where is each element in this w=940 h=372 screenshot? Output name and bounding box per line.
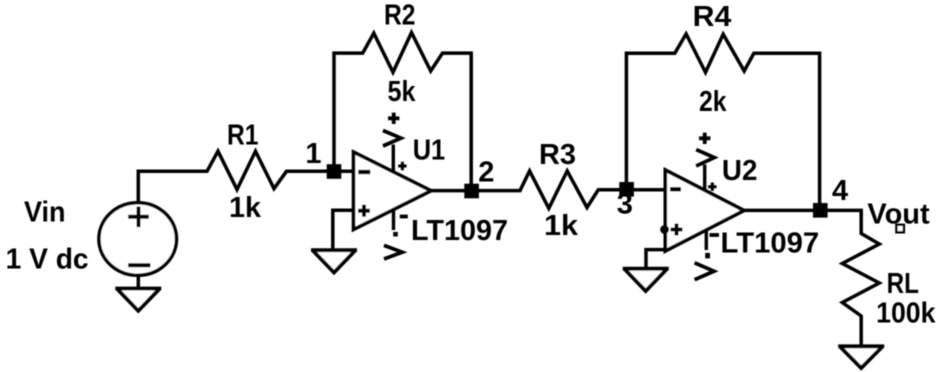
svg-text:RL: RL [887, 268, 919, 300]
svg-text:1k: 1k [229, 192, 262, 224]
svg-text:Vin: Vin [24, 197, 66, 229]
svg-text:3: 3 [617, 189, 633, 221]
svg-text:R4: R4 [693, 1, 732, 33]
svg-text:1 V dc: 1 V dc [6, 244, 89, 276]
svg-text:R2: R2 [384, 0, 416, 32]
svg-text:100k: 100k [876, 298, 936, 330]
svg-text:R1: R1 [227, 120, 259, 152]
svg-text:U2: U2 [722, 155, 758, 187]
svg-text:R3: R3 [539, 139, 576, 171]
svg-text:1k: 1k [544, 210, 579, 242]
svg-text:U1: U1 [413, 134, 446, 166]
svg-text:5k: 5k [388, 76, 417, 108]
svg-text:LT1097: LT1097 [411, 215, 508, 247]
svg-text:4: 4 [832, 175, 848, 207]
svg-text:2: 2 [478, 157, 494, 189]
svg-text:Vout: Vout [867, 199, 930, 231]
svg-text:LT1097: LT1097 [721, 228, 820, 260]
svg-text:2k: 2k [699, 86, 727, 118]
svg-text:1: 1 [305, 138, 321, 170]
